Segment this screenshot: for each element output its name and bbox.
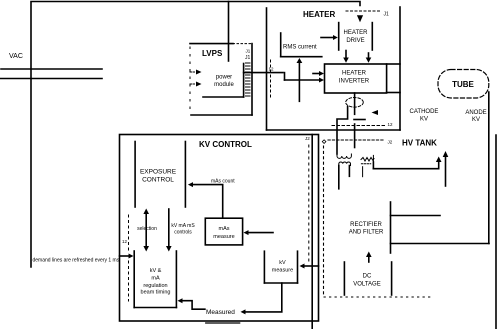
block rectifier and filter bbox=[391, 202, 490, 253]
wire mains drop to LVPS bbox=[228, 2, 230, 62]
wire LVPS to heater inverter rail 1 bbox=[244, 72, 283, 74]
svg-text:DC: DC bbox=[363, 274, 372, 280]
connector 12 dash line above heater bottom bbox=[332, 125, 385, 127]
svg-text:kV &: kV & bbox=[150, 268, 162, 274]
svg-text:KV CONTROL: KV CONTROL bbox=[199, 140, 252, 149]
svg-text:INVERTER: INVERTER bbox=[339, 79, 370, 85]
wire cathode supply 2 bbox=[443, 151, 449, 186]
wire drive to inverter arrow 2 bbox=[366, 53, 372, 63]
wire inverter rails to module edge bbox=[387, 63, 400, 65]
block mAs measure bbox=[205, 218, 242, 245]
connector J1 bus ladder on LVPS right bbox=[246, 63, 251, 96]
svg-text:12: 12 bbox=[122, 239, 128, 244]
svg-text:mA: mA bbox=[151, 276, 160, 282]
svg-text:EXPOSURE: EXPOSURE bbox=[140, 169, 177, 176]
wire LVPS input arrow 2 bbox=[190, 82, 202, 87]
wire HV tank right border bbox=[495, 135, 497, 329]
svg-text:LVPS: LVPS bbox=[202, 49, 223, 58]
svg-text:KV: KV bbox=[420, 117, 428, 123]
svg-text:J1: J1 bbox=[384, 12, 390, 18]
svg-text:kV mA mS: kV mA mS bbox=[171, 223, 195, 229]
svg-text:J2: J2 bbox=[388, 140, 393, 145]
wire selection double arrow bbox=[143, 209, 149, 252]
svg-text:RMS current: RMS current bbox=[283, 45, 317, 51]
svg-text:power: power bbox=[216, 75, 232, 81]
resistor R1 bbox=[361, 155, 374, 176]
svg-text:ANODE: ANODE bbox=[465, 110, 486, 116]
wire stub arrow into inverter upper bbox=[313, 71, 324, 76]
block HEATER DRIVE (side edges) bbox=[339, 23, 373, 50]
node diamond marker bbox=[322, 140, 326, 144]
wire LVPS input arrow 1 bbox=[190, 70, 202, 75]
wire short stub near toroid bbox=[354, 119, 365, 121]
svg-text:TUBE: TUBE bbox=[452, 80, 474, 89]
block LVPS dashed enclosure bbox=[190, 44, 252, 115]
wire RMS current to heater drive bbox=[321, 35, 338, 40]
svg-text:AND FILTER: AND FILTER bbox=[349, 230, 384, 236]
wire mAs count to exposure control bbox=[188, 182, 223, 218]
wire vertical bus at right of KV control bbox=[311, 135, 313, 329]
block kV measure (sides and bottom) bbox=[264, 251, 297, 283]
svg-text:module: module bbox=[214, 82, 234, 88]
svg-text:kV: kV bbox=[279, 260, 286, 266]
svg-text:CONTROL: CONTROL bbox=[142, 177, 174, 184]
svg-text:controls: controls bbox=[174, 230, 192, 236]
svg-text:mAs count: mAs count bbox=[211, 179, 235, 185]
svg-text:HV TANK: HV TANK bbox=[402, 139, 437, 148]
svg-text:VOLTAGE: VOLTAGE bbox=[353, 282, 380, 288]
tube V1 dashed envelope bbox=[438, 70, 489, 99]
wire secondary left lead bbox=[338, 166, 340, 189]
block kV mA regulation (sides and bottom) bbox=[134, 251, 176, 308]
svg-text:beam timing: beam timing bbox=[141, 290, 171, 296]
svg-text:HEATER: HEATER bbox=[303, 10, 336, 19]
svg-text:HEATER: HEATER bbox=[344, 30, 369, 36]
svg-text:12: 12 bbox=[388, 122, 394, 127]
wire arrow into HEATER DRIVE from top bbox=[357, 15, 363, 22]
block power module (partial outline) bbox=[203, 64, 244, 98]
svg-text:DRIVE: DRIVE bbox=[346, 38, 364, 44]
svg-text:VAC: VAC bbox=[9, 53, 23, 60]
connector dashed line inside right edge bbox=[308, 145, 310, 265]
wire rail 2 into inverter bbox=[285, 78, 325, 83]
svg-text:J1: J1 bbox=[246, 49, 251, 54]
wire anode line bbox=[488, 92, 490, 244]
block KV CONTROL enclosure bbox=[120, 135, 319, 322]
block HEATER INVERTER U1 bbox=[325, 64, 387, 93]
wire current sense tap with up arrow bbox=[297, 58, 303, 101]
svg-text:measure: measure bbox=[272, 268, 293, 274]
wire jog bbox=[284, 73, 286, 80]
block EXPOSURE CONTROL (side edges) bbox=[135, 142, 185, 208]
svg-text:regulation: regulation bbox=[143, 283, 167, 289]
connector dashed line inside left edge bbox=[128, 215, 130, 252]
wire Measured feedback path bbox=[178, 283, 282, 314]
wire AC mains line 1 bbox=[1, 68, 102, 70]
wire outer boundary L bbox=[31, 2, 360, 268]
svg-text:12: 12 bbox=[269, 67, 275, 72]
wire demand arrow into regulation bbox=[120, 254, 134, 259]
svg-text:demand lines are refreshed eve: demand lines are refreshed every 1 ms bbox=[33, 258, 120, 264]
svg-text:Measured: Measured bbox=[206, 309, 235, 316]
svg-text:KV: KV bbox=[472, 117, 480, 123]
transformer T2 filament primary bbox=[337, 154, 351, 158]
transformer T1 current toroid bbox=[346, 98, 364, 108]
svg-text:J2: J2 bbox=[305, 136, 310, 141]
svg-text:CATHODE: CATHODE bbox=[410, 109, 439, 115]
wire kV feedback into kV measure bbox=[300, 264, 319, 269]
svg-text:measure: measure bbox=[213, 234, 234, 240]
node underline mark bbox=[206, 322, 240, 324]
wire AC mains line 2 bbox=[0, 78, 102, 80]
svg-text:RECTIFIER: RECTIFIER bbox=[350, 222, 382, 228]
wire controls down arrow bbox=[166, 209, 172, 252]
svg-text:selection: selection bbox=[137, 226, 157, 232]
node small left arrow marker bbox=[372, 110, 379, 115]
wire inverter output down bbox=[354, 93, 356, 114]
connector 12 dashed boundary on heater left bbox=[270, 60, 272, 98]
block HV TANK dashed boundary bbox=[324, 140, 434, 297]
block HEATER module boundary bbox=[267, 7, 401, 130]
wire DC voltage up arrow bbox=[366, 252, 372, 263]
wire cathode supply 1 bbox=[373, 157, 441, 169]
svg-text:HEATER: HEATER bbox=[342, 71, 367, 77]
svg-text:J1: J1 bbox=[245, 55, 251, 61]
wire secondary right lead bbox=[348, 166, 350, 177]
wire heater return step bbox=[337, 107, 348, 155]
svg-text:mAs: mAs bbox=[219, 226, 230, 232]
node RMS current sense bracket bbox=[281, 33, 322, 57]
wire drive to inverter arrow 1 bbox=[343, 51, 349, 63]
wire into mAs measure right bbox=[244, 230, 274, 235]
block DC voltage (side edges) bbox=[344, 262, 391, 295]
wire heater feed continues bbox=[354, 124, 356, 148]
transformer T2 filament secondary bbox=[339, 162, 351, 166]
